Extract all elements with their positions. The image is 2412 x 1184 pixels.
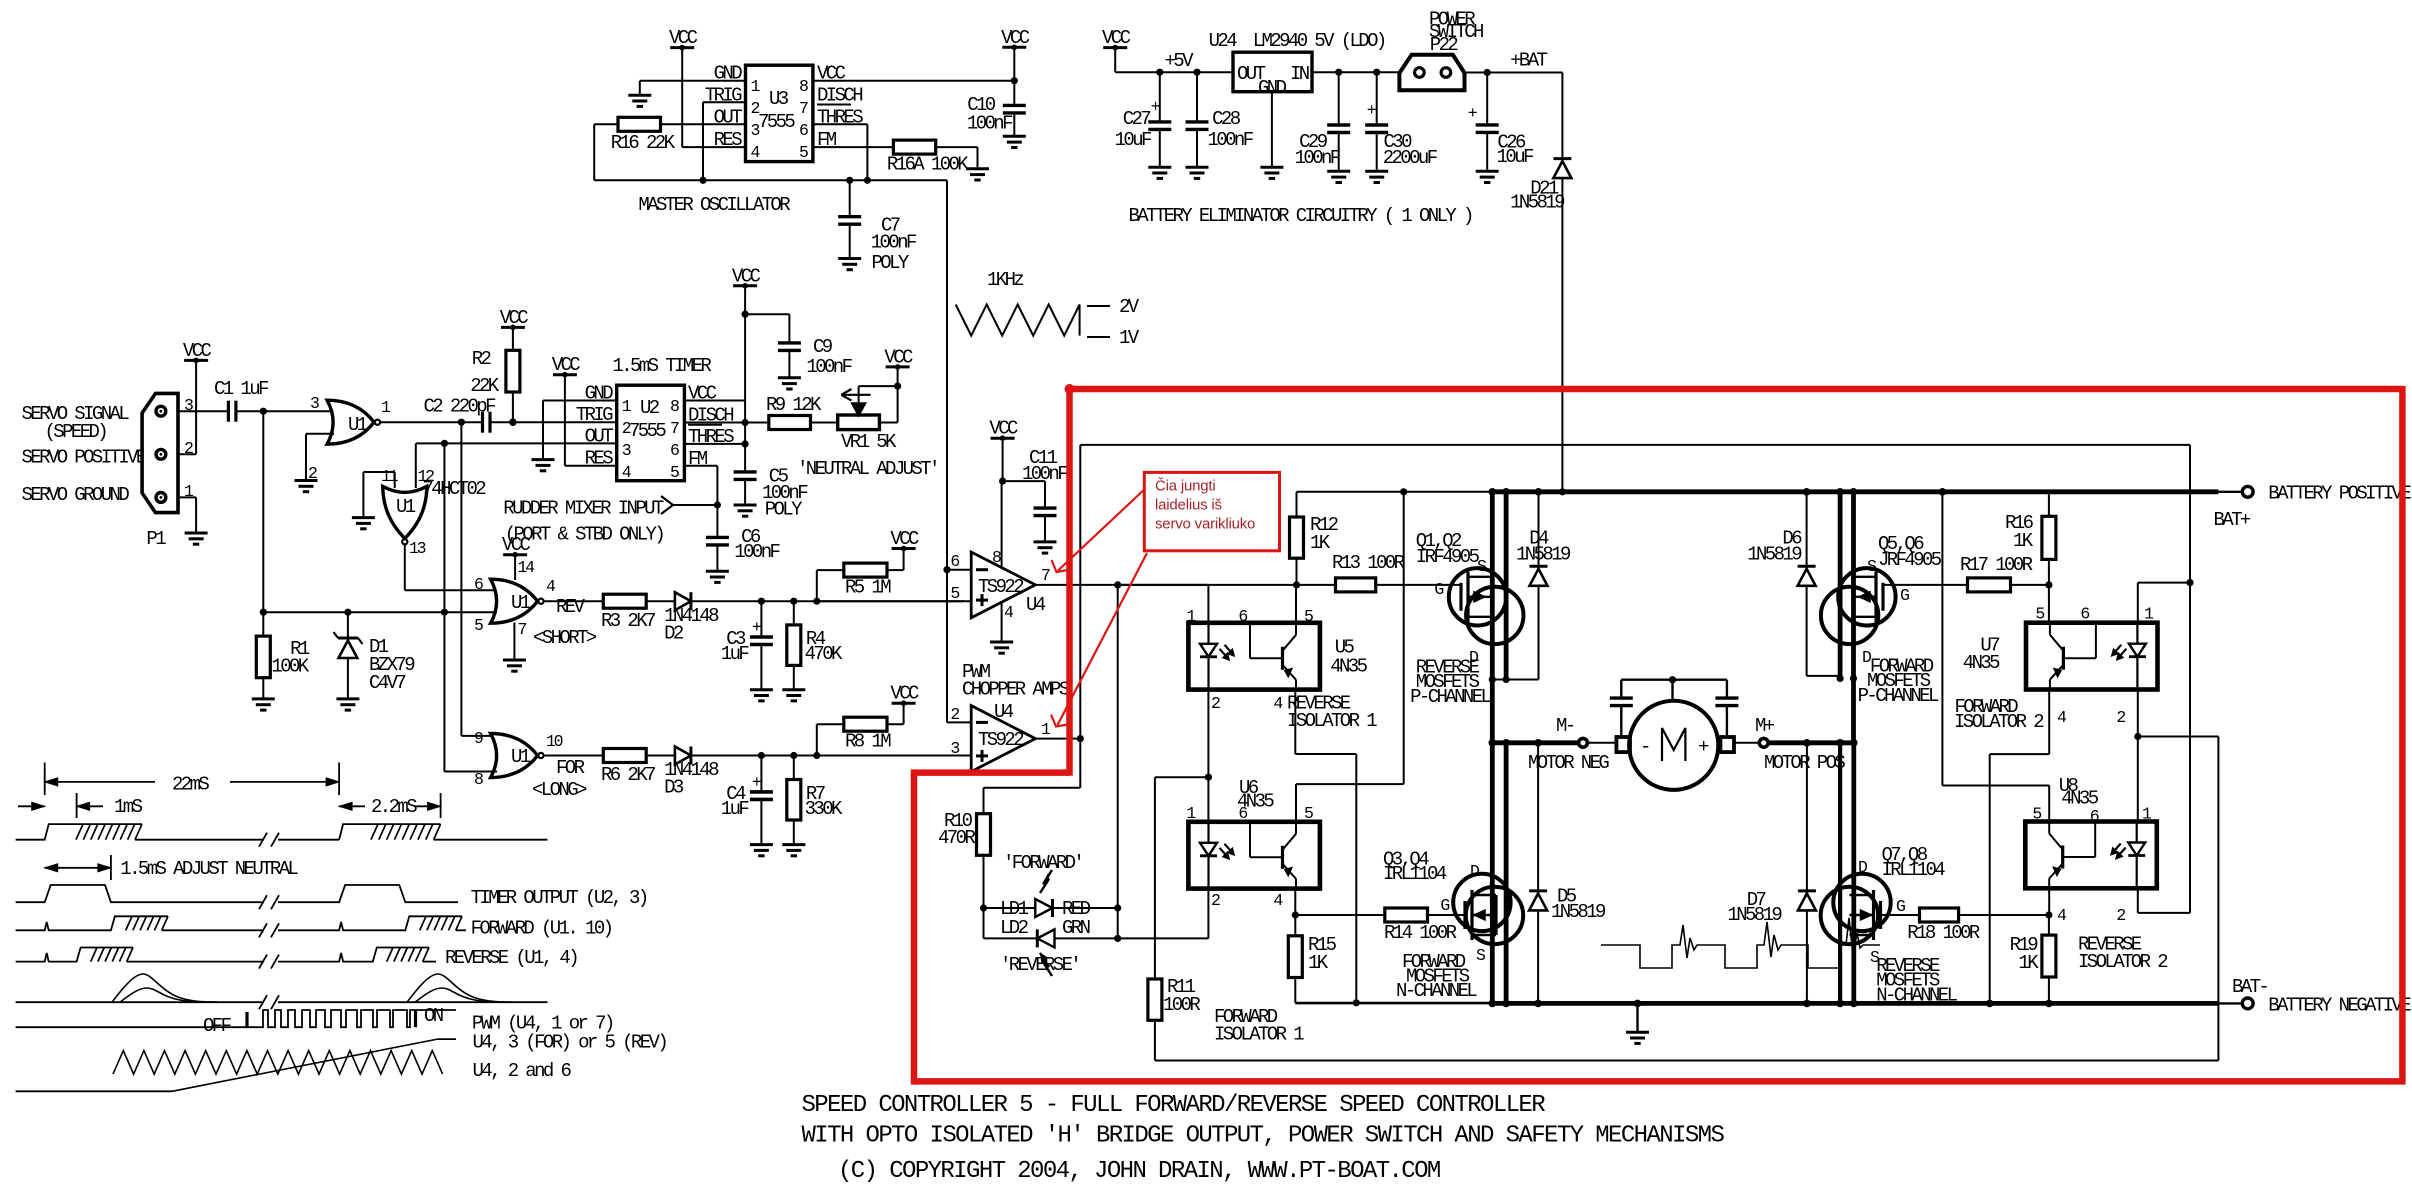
capacitor C29 100nF [1295,72,1351,171]
label forward [471,917,612,939]
capacitor C6 100nF [706,505,781,571]
junction R2 bottom [509,418,517,426]
wire U4a output [1035,584,1335,586]
pin3 label [184,396,193,415]
ground C6 [706,571,729,582]
wire oscillator bottom [594,180,947,569]
wire U1c in12 up to OUT line [415,443,417,488]
svg-text:<LONG>: <LONG> [532,779,587,801]
wire U2 VCC pin8 [684,286,745,401]
junction R4 [790,598,797,605]
label reverse [445,947,577,969]
junction C11 node [999,478,1006,485]
wire C1 node down to R1 [262,411,264,612]
svg-text:BAT+: BAT+ [2214,509,2251,531]
wire M- to brush [1586,742,1616,744]
pin2 label U8 [2116,906,2125,925]
wire U7pin2 to return [2138,737,2219,1061]
wire Q5 gate [1883,584,1968,586]
junction C7 node [846,177,853,184]
wire R10 feed [984,739,1081,788]
opto U6 4N35 [1188,777,1320,889]
svg-text:U4, 2 and 6: U4, 2 and 6 [473,1060,572,1082]
capacitor C4 1uF [721,756,773,845]
motor M [1629,701,1718,790]
svg-text:GRN: GRN [1062,917,1090,939]
potentiometer VR1 5K [797,386,938,480]
title line3 [838,1158,1440,1184]
wire input8 [444,771,497,773]
junction C4 [758,752,765,759]
pin10 label U1d [546,732,563,751]
junction C27 [1156,69,1163,76]
VCC symbol R5 [890,528,919,551]
wire U7 pin2 [2137,690,2139,737]
terminal battery positive [2214,483,2412,531]
bus Q1 left [1490,492,1495,680]
wire U4a in5 [817,600,971,601]
label +BAT [1510,50,1547,72]
svg-text:SERVO POSITIVE: SERVO POSITIVE [22,447,147,469]
svg-text:<SHORT>: <SHORT> [533,627,597,649]
bus Q2 left [1504,492,1509,680]
label LONG [532,779,587,801]
ground C4 [750,845,773,856]
wire U5 pin2 down [1207,690,1209,778]
wire U1c in11 to ground [363,472,394,518]
junction bus tops L [1489,488,1543,496]
svg-text:-: - [1640,736,1649,758]
bump waveform [16,974,548,1009]
motor rail M- thick [1489,739,1580,747]
ground C7 [838,259,861,270]
transistor Q3 Q4 IRL1104 [1383,849,1523,966]
title line2 [802,1122,1725,1149]
junction TRIG bottom [699,177,706,184]
svg-text:P22: P22 [1430,34,1459,56]
LED LD1 RED [984,870,1091,920]
servo pulse waveform [16,824,548,847]
ground R7 [782,845,805,856]
svg-text:IRF4905: IRF4905 [1416,546,1480,568]
wire brush to M+ [1734,742,1759,744]
wire U1a input2 to ground [306,434,334,481]
label u4 2 and 6 [473,1060,572,1082]
junction FM C6 [714,501,721,508]
label rudder mixer input [503,497,664,545]
label reverse mosfets n [1876,955,1957,1006]
junction C28 [1193,69,1200,76]
wire U6 pin2 to LD2 [1207,889,1209,939]
wire OUT line [416,442,617,444]
svg-text:U1: U1 [396,496,416,518]
wire U4a in6 [947,569,971,571]
resistor R14 100R [1295,908,1465,944]
pin5 label U8 [2032,804,2041,823]
svg-text:laidelius iš: laidelius iš [1155,497,1222,514]
wire VCC to servo positive [178,360,196,454]
svg-text:FOR: FOR [556,757,585,779]
wire forward rail [1080,445,2190,739]
svg-text:1.5mS TIMER: 1.5mS TIMER [612,355,711,377]
2V level mark [1087,296,1140,318]
label servo signal [22,403,130,443]
label SHORT [533,627,597,649]
wire switch to +BAT corner [1465,73,1563,159]
resistor R3 2K7 [601,594,655,632]
diode D3 1N4148 [664,747,719,799]
ground C26 [1476,171,1499,182]
terminal M+ [1755,715,1845,774]
svg-text:10uF: 10uF [1497,146,1534,168]
svg-text:2.2mS: 2.2mS [371,796,417,818]
svg-text:1mS: 1mS [114,796,143,818]
svg-text:servo varikliuko: servo varikliuko [1155,516,1255,533]
junction C10 node [1011,77,1018,84]
wire R11 link [1155,777,1209,979]
label 74HCT02 [423,478,487,500]
svg-text:1N5819: 1N5819 [1551,901,1606,923]
motor top bus [1621,676,1727,701]
ground C10 [1003,136,1026,147]
pin1 label U5 [1186,607,1196,626]
pin2 label U6 [1211,891,1220,910]
svg-text:R3 2K7: R3 2K7 [601,610,655,632]
wire D2 to opamp line REV [691,600,963,602]
wire U5 pin4 down [1295,690,1356,1003]
svg-text:M+: M+ [1755,715,1775,737]
wire R6 to D3 [646,755,675,757]
svg-text:FORWARD (U1. 10): FORWARD (U1. 10) [471,917,612,939]
svg-text:POLY: POLY [765,499,803,521]
pin5 label U5 [1304,607,1313,626]
svg-text:N-CHANNEL: N-CHANNEL [1396,980,1477,1002]
junction threshold D1 [441,609,448,616]
wire U1a output [380,421,461,423]
resistor R9 12K [766,394,822,430]
label battery eliminator [1129,205,1472,227]
wire R16A right to ground [936,147,978,169]
svg-text:CHOPPER AMPS: CHOPPER AMPS [962,679,1070,701]
zener D1 BZX79 C4V7 [334,612,416,699]
BAT+ rail to terminal [2218,491,2242,493]
wire LD1 right [1053,907,1118,909]
pin2 label [184,439,193,458]
svg-text:13: 13 [409,539,426,558]
VCC symbol C11 [989,418,1018,441]
pin9 label U1d [474,729,483,748]
red arrow 2 [1051,553,1147,727]
label timer output [471,887,647,909]
wire threshold vertical [443,443,445,771]
junction R1 D1 [260,609,267,616]
transistor Q1 Q2 IRF4905 [1416,530,1524,667]
pin11 label [381,467,399,486]
VCC symbol U2 RES [552,354,581,377]
ground C28 [1186,167,1209,178]
svg-text:'NEUTRAL ADJUST': 'NEUTRAL ADJUST' [797,458,938,480]
svg-text:IRL1104: IRL1104 [1383,863,1447,885]
pin5 label U6 [1304,804,1313,823]
wire R15 bottom to rail [1295,1002,1490,1004]
pin12 label [418,467,435,486]
label servo ground [22,484,130,506]
svg-text:R8 1M: R8 1M [845,731,891,753]
wire U4b in2 [947,721,971,723]
resistor R18 100R [1907,908,1980,944]
capacitor C30 2200uF [1365,72,1438,171]
svg-text:JRF4905: JRF4905 [1878,549,1942,571]
svg-text:1uF: 1uF [721,798,750,820]
opto U7 4N35 [1963,623,2158,690]
svg-text:C9: C9 [813,336,833,358]
pin2 label U7 [2116,708,2125,727]
pin6 label U1b [474,575,483,594]
op-amp U4b TS922 [971,701,1035,772]
wire U24 GND to ground [1271,92,1273,168]
wire U4a pin8 up [1001,481,1003,568]
transistor Q5 Q6 IRF4905 [1821,557,1909,667]
VCC symbol battery eliminator [1102,27,1131,50]
pin1 label U4b [1041,720,1051,739]
junction C9 branch [742,311,749,318]
svg-text:14: 14 [518,558,536,577]
pin8 label U1d [474,770,483,789]
svg-text:MOTOR POS: MOTOR POS [1764,752,1845,774]
pin6 label U4a [950,552,959,571]
wire U1c out down [405,545,497,591]
label 1.5mS timer [612,355,711,377]
label chopper amps [962,679,1070,701]
svg-text:ISOLATOR 2: ISOLATOR 2 [2078,951,2168,973]
label FOR [556,757,585,779]
label REV [556,596,586,618]
svg-text:'FORWARD': 'FORWARD' [1003,852,1082,874]
junction bus tops R [1803,488,1858,496]
svg-text:11: 11 [381,467,399,486]
svg-text:U1: U1 [511,746,531,768]
wire U2 DISCH pin7 [684,422,745,424]
ground R4 [782,690,805,701]
wire U6 pin4 down [1294,889,1296,915]
svg-text:OFF: OFF [203,1015,232,1037]
ground C30 [1365,171,1388,182]
wire U8 pin1 up [2137,737,2139,822]
pin7 label U4a [1041,566,1050,585]
wire R9 to VR1 [811,422,838,424]
resistor R1 100K [256,612,310,699]
terminal M- [1528,715,1609,774]
wire sawtooth vertical [946,570,948,723]
svg-text:10: 10 [546,732,563,751]
label FORWARD quoted [1003,852,1082,874]
label +5V [1165,50,1195,72]
wire R9 left [745,422,769,424]
svg-text:SERVO GROUND: SERVO GROUND [22,484,130,506]
svg-text:(PORT & STBD ONLY): (PORT & STBD ONLY) [505,523,664,545]
wire U1d out to R6 [544,755,603,757]
wire R12 to bat rail [1297,491,1490,493]
VCC symbol R8 [890,683,919,706]
BAT- to terminal [2218,1002,2242,1004]
svg-text:U4: U4 [1026,594,1046,616]
VCC symbol C10 [1001,27,1030,50]
wire fw drive down [2138,583,2190,913]
svg-text:ISOLATOR 2: ISOLATOR 2 [1954,711,2044,733]
capacitor C27 10uF [1115,72,1172,167]
capacitor C10 100nF [967,81,1026,137]
transistor Q7 Q8 IRL1104 [1821,844,1946,967]
resistor R17 100R [1960,554,2033,592]
junction R7 [790,752,797,759]
label Q5Q6 [1878,533,1942,571]
svg-text:R14 100R: R14 100R [1384,922,1457,944]
LED LD2 GRN [984,917,1090,976]
snubber cap right [1715,680,1738,737]
wire U2 THRES pin6 [684,443,745,445]
wire U8 pin5 [1942,492,2049,822]
wire D6 bottom join [1807,675,1858,682]
svg-text:P1: P1 [146,528,166,550]
wire U1a out down to U1d in9 [461,422,497,736]
svg-text:10uF: 10uF [1115,129,1152,151]
capacitor C5 100nF POLY [734,465,809,520]
svg-text:TIMER OUTPUT (U2, 3): TIMER OUTPUT (U2, 3) [471,887,647,909]
svg-text:1KHz: 1KHz [987,269,1023,291]
svg-text:C27: C27 [1123,108,1151,130]
wire VCC to U3 RES pin4 [682,48,745,148]
wire servo ground [178,497,196,533]
svg-text:1N5819: 1N5819 [1747,543,1802,565]
bus Q5 right b [1851,492,1856,743]
svg-text:U4, 3 (FOR) or 5 (REV): U4, 3 (FOR) or 5 (REV) [473,1032,667,1054]
red annotation box [1144,472,1279,550]
pin6 label U7 [2080,605,2089,624]
pin5 label U7 [2035,605,2044,624]
svg-text:LD2: LD2 [1000,917,1029,939]
wire R18 right [1959,914,2049,916]
VCC symbol VR1 [884,346,913,369]
NOR gate U1c rotated [383,486,427,544]
svg-text:(SPEED): (SPEED) [45,421,107,443]
bus Q3 left b [1504,743,1509,1004]
svg-text:470R: 470R [938,827,975,849]
junction R12 R13 U5pin5 [1293,581,1300,588]
resistor R16 22K [611,117,676,154]
terminal battery negative [2232,976,2411,1016]
wire C2 to U2 TRIG [490,421,617,423]
pin1 label U7 [2144,605,2154,624]
svg-text:M-: M- [1556,715,1574,737]
svg-text:OUT: OUT [585,426,614,448]
ground C11 [1034,542,1057,553]
title line1 [802,1092,1546,1119]
junction THRES node [864,177,871,184]
wire U2 FM pin5 [684,466,717,505]
wire VCC down to VR1 right [879,367,897,423]
pin1 label U1a [381,398,391,417]
wire U3 OUT pin3 to R16 [661,123,746,125]
svg-text:R16 22K: R16 22K [611,132,676,154]
label forward mosfets p [1858,655,1939,706]
junction U5pin2 U6pin1 [1205,774,1212,781]
svg-text:C4V7: C4V7 [369,672,405,694]
capacitor C3 1uF [721,601,773,690]
capacitor C9 100nF [745,314,853,378]
svg-text:ISOLATOR 1: ISOLATOR 1 [1287,710,1377,732]
junction D1 [344,609,351,616]
pin6 label U5 [1238,607,1247,626]
svg-text:LM2940 5V (LDO): LM2940 5V (LDO) [1253,30,1385,52]
wire U2 RES to VCC [565,375,617,466]
pin4 label U4a [1004,603,1014,622]
op-amp U4a TS922 [971,552,1046,618]
wire C1 to U1a input3 [236,410,334,412]
wire Q7 gate [1881,914,1920,916]
regulator U24 LM2940 [1209,30,1385,99]
junction R14 R15 [1292,911,1299,918]
pin13 label [409,539,426,558]
junction LD2 right [1114,935,1121,942]
svg-text:1N5819: 1N5819 [1727,904,1782,926]
wire LD2 right [1055,937,1209,939]
svg-text:VR1 5K: VR1 5K [841,431,897,453]
wire VR1 wiper to VCC [859,385,898,387]
svg-text:Čia jungti: Čia jungti [1155,478,1216,495]
svg-text:D3: D3 [664,777,684,799]
label forward isolator2 [1954,696,2044,733]
svg-text:100nF: 100nF [1022,463,1068,485]
bus Q3 left a [1490,743,1495,1004]
svg-text:U24: U24 [1209,30,1238,52]
resistor R11 100R [1148,976,1201,1061]
capacitor C1 1uF [214,378,269,422]
dimension 1.5mS [45,855,299,880]
resistor R16r 1K [2005,492,2056,585]
svg-text:470K: 470K [805,643,843,665]
svg-text:R9 12K: R9 12K [766,394,822,416]
svg-text:+5V: +5V [1165,50,1195,72]
ground C27 [1148,167,1171,178]
label reverse isolator2 [2078,934,2168,974]
svg-text:1N5819: 1N5819 [1516,543,1571,565]
wire U3 VCC pin8 [813,80,1014,82]
svg-text:'REVERSE': 'REVERSE' [1000,954,1079,976]
pin1 label U8 [2142,805,2152,824]
dimension 1mS [18,793,143,818]
wire U6 pin1 up [1207,777,1209,822]
pin6 label U8 [2090,807,2099,826]
junctions on BAT- rail [1489,1000,2053,1008]
svg-text:REVERSE (U1, 4): REVERSE (U1, 4) [445,947,577,969]
svg-text:+BAT: +BAT [1510,50,1547,72]
wire R2 top to VCC [512,327,514,350]
wire R2 bottom [512,392,514,422]
svg-text:U4: U4 [994,701,1014,723]
svg-text:WITH OPTO ISOLATED 'H' BRIDGE: WITH OPTO ISOLATED 'H' BRIDGE OUTPUT, PO… [802,1122,1725,1149]
junction U8 collector rail [1939,488,1947,496]
svg-text:TRIG: TRIG [576,404,613,426]
svg-text:BATTERY POSITIVE: BATTERY POSITIVE [2268,483,2411,505]
svg-text:U2: U2 [640,397,660,419]
resistor R2 22K [470,348,520,397]
svg-text:1N5819: 1N5819 [1510,192,1565,214]
svg-text:U1: U1 [348,414,368,436]
wire U4b output [1035,738,1080,740]
wire D21 to BAT+ rail [1561,178,1563,492]
wire LED column [1117,585,1119,939]
junction gate node R2 [2045,911,2052,918]
